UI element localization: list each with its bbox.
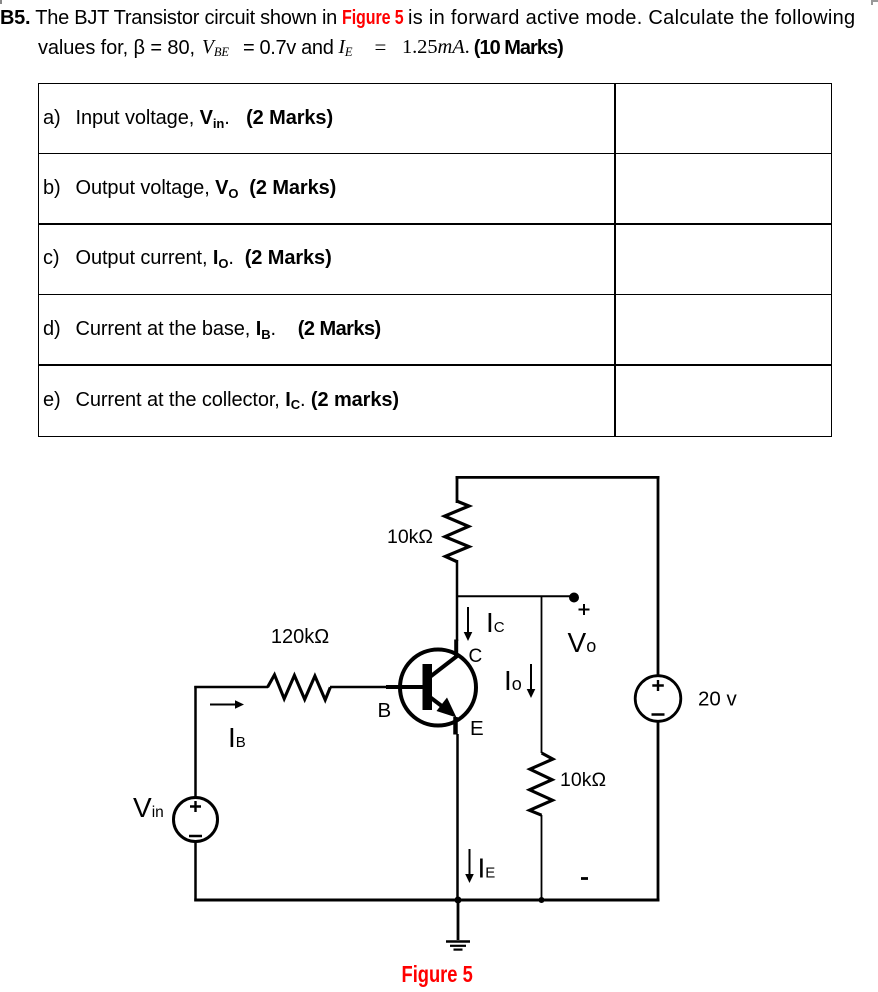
circuit figure xyxy=(0,440,878,992)
wire input vertical lower xyxy=(194,842,197,902)
plus sign in Vin xyxy=(190,801,201,812)
junction dot emitter-rail xyxy=(455,897,462,904)
wire base right xyxy=(330,686,400,689)
plus sign at Vo node xyxy=(579,604,590,615)
svg-text:E: E xyxy=(470,717,484,740)
resistor R2 120k base xyxy=(268,675,331,700)
wire right rail upper xyxy=(657,476,660,676)
corner mark top-left xyxy=(0,0,2,4)
wire input vertical upper xyxy=(194,686,197,797)
minus sign in Vin xyxy=(189,835,202,838)
svg-text:C: C xyxy=(469,646,483,667)
junction dot load-rail xyxy=(539,897,545,903)
wire base left xyxy=(194,686,268,689)
ground bars xyxy=(446,940,470,942)
minus sign in V20 xyxy=(652,713,665,716)
transistor Q1 emitter lead with arrow xyxy=(431,698,444,708)
ground stem xyxy=(457,900,460,940)
svg-text:20 v: 20 v xyxy=(698,688,737,711)
minus sign at Vo bottom xyxy=(581,877,588,880)
transistor Q1 circle xyxy=(400,650,476,726)
table row e xyxy=(43,365,399,435)
wire collector branch top xyxy=(456,476,459,503)
wire top rail xyxy=(456,476,660,479)
table row a xyxy=(43,84,333,153)
resistor R3 10k load xyxy=(530,753,553,815)
arrow Io xyxy=(530,664,532,690)
svg-text:Vo: Vo xyxy=(568,627,597,658)
table row c xyxy=(43,224,332,293)
wire emitter vertical xyxy=(456,734,459,900)
wire bottom rail xyxy=(194,899,659,902)
node Vo dot xyxy=(569,593,579,603)
transistor Q1 collector lead xyxy=(431,655,460,677)
resistor R1 10k collector xyxy=(445,501,469,562)
table row d xyxy=(43,295,381,364)
table row b xyxy=(43,154,336,223)
svg-text:10kΩ: 10kΩ xyxy=(560,769,606,791)
wire output branch vertical xyxy=(541,596,543,753)
table vertical divider xyxy=(614,83,615,436)
svg-text:120kΩ: 120kΩ xyxy=(271,626,329,648)
answer table xyxy=(38,83,832,437)
svg-text:IB: IB xyxy=(228,722,246,753)
svg-text:Figure 5: Figure 5 xyxy=(402,962,474,988)
arrow IE xyxy=(469,849,471,875)
transistor Q1 base lead xyxy=(386,685,424,689)
header line 1 xyxy=(0,8,855,28)
wire collector vertical xyxy=(456,560,459,641)
source V20 circle xyxy=(635,676,681,722)
source Vin circle xyxy=(174,798,218,842)
svg-text:Io: Io xyxy=(504,665,522,696)
svg-text:B: B xyxy=(378,699,392,722)
svg-text:IE: IE xyxy=(478,853,496,884)
table row lines xyxy=(38,153,831,154)
arrow IB xyxy=(210,704,238,706)
wire right rail lower xyxy=(657,722,660,902)
transistor Q1 base bar xyxy=(423,664,433,710)
svg-text:10kΩ: 10kΩ xyxy=(387,526,433,548)
svg-text:IC: IC xyxy=(486,607,505,638)
corner mark top-right xyxy=(871,0,878,2)
plus sign in V20 xyxy=(652,680,664,691)
wire below R3 xyxy=(541,815,543,900)
header line 2 xyxy=(38,38,195,58)
svg-text:Vin: Vin xyxy=(133,792,164,823)
wire output node horizontal xyxy=(457,595,573,597)
arrow Ic xyxy=(467,607,469,633)
